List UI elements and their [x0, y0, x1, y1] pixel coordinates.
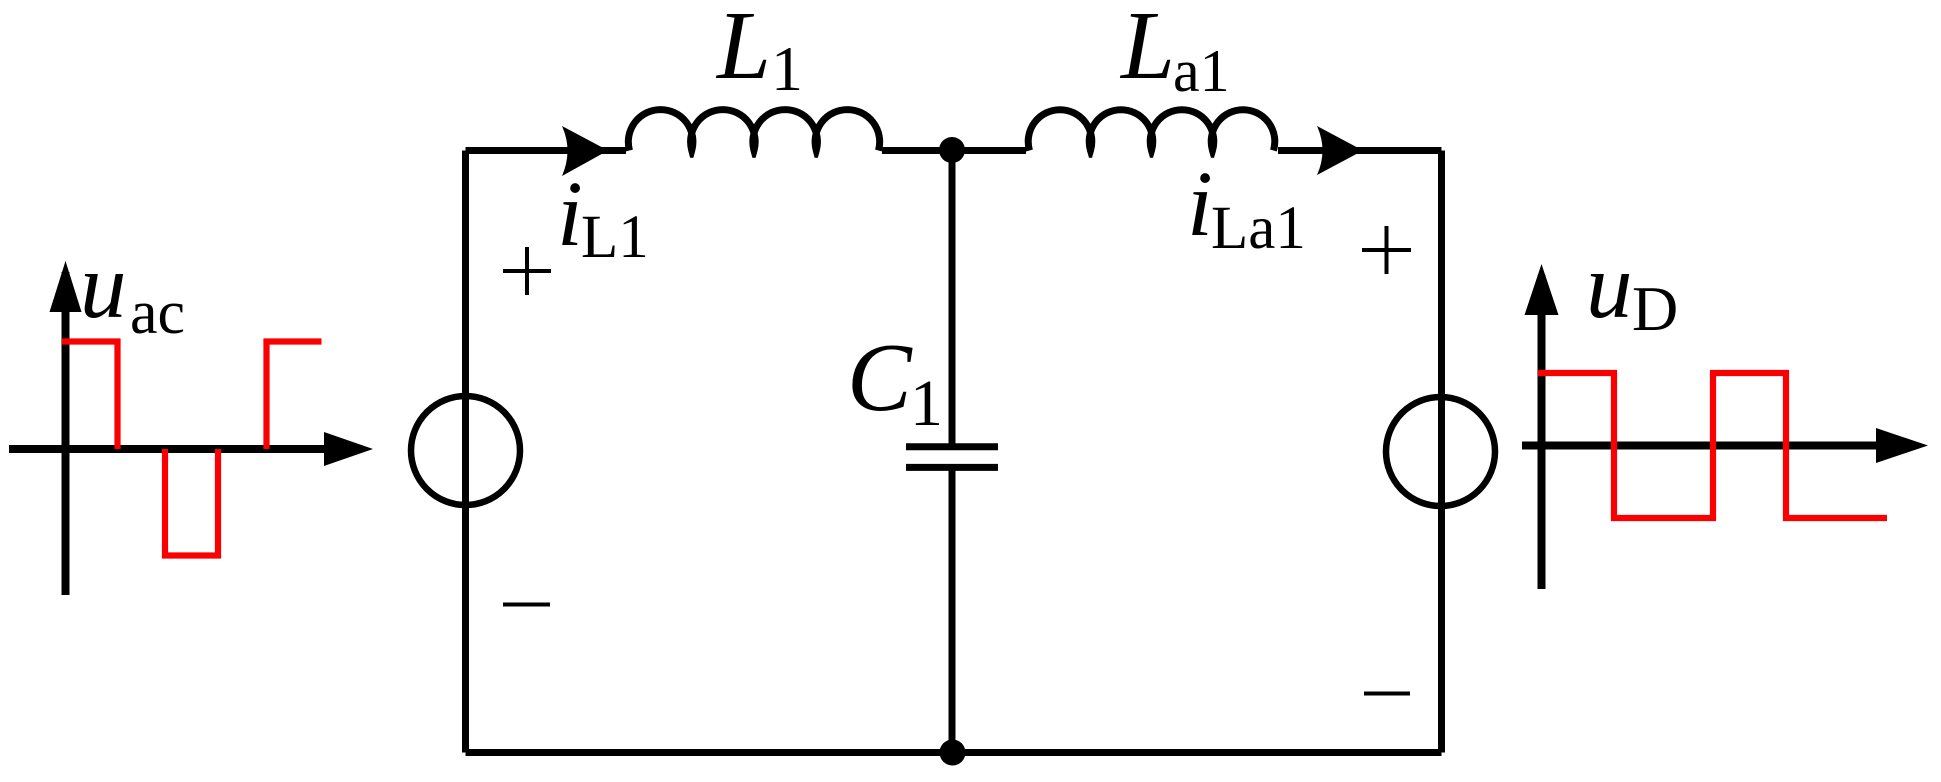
wire: La1 to right rail: [1278, 147, 1442, 154]
wire: L1 to La1 through node: [882, 147, 1026, 154]
plus sign at left source: [503, 247, 551, 295]
waveform u_ac (red square wave): [62, 342, 322, 556]
svg-text:i: i: [557, 163, 583, 266]
minus sign at right source: [1364, 692, 1410, 696]
left plot: horizontal axis arrowhead: [324, 432, 373, 466]
wire: capacitor C1 bottom plate to bottom node: [949, 470, 956, 753]
right plot: vertical axis: [1538, 275, 1546, 589]
svg-text:L1: L1: [581, 204, 649, 271]
svg-text:u: u: [1586, 235, 1633, 338]
node: bottom junction dot: [940, 740, 966, 766]
mask for inductor La1 valley spikes: [1040, 158, 1264, 172]
left plot: horizontal axis: [9, 445, 330, 453]
current arrow for iL1: [562, 126, 608, 176]
svg-text:u: u: [80, 235, 127, 338]
svg-text:L: L: [1119, 0, 1175, 99]
wire: top segment from left rail to L1: [466, 147, 627, 154]
svg-text:1: 1: [910, 367, 943, 440]
wire: right rail of circuit loop: [1438, 151, 1445, 753]
right plot: horizontal axis arrowhead: [1876, 428, 1928, 463]
minus sign at left source: [503, 603, 550, 607]
left plot: vertical axis arrowhead: [50, 261, 82, 312]
inductor L1: [628, 110, 879, 151]
right plot: vertical axis arrowhead: [1525, 264, 1559, 315]
svg-text:1: 1: [771, 33, 803, 104]
svg-text:C: C: [847, 324, 913, 431]
current arrow for iLa1: [1317, 126, 1363, 175]
node: top junction dot: [939, 137, 965, 163]
svg-text:L: L: [715, 0, 771, 99]
right plot: horizontal axis: [1522, 442, 1880, 450]
inductor La1: [1028, 110, 1275, 151]
svg-text:a1: a1: [1173, 38, 1230, 104]
capacitor C1 plates: [906, 447, 998, 468]
svg-text:ac: ac: [130, 279, 185, 347]
mask for inductor L1 valley spikes: [640, 158, 870, 172]
svg-text:La1: La1: [1211, 195, 1306, 262]
wire: bottom segment of circuit loop: [466, 749, 1442, 756]
waveform u_D (red square wave): [1538, 373, 1887, 518]
wire: node to capacitor C1 top plate: [949, 151, 956, 445]
svg-text:D: D: [1632, 273, 1678, 344]
left plot: vertical axis: [62, 272, 70, 595]
source U2: right AC source circle: [1386, 397, 1495, 506]
wire: left rail of circuit loop: [462, 151, 469, 753]
source U1: left AC source circle: [411, 396, 520, 505]
svg-text:i: i: [1187, 153, 1213, 256]
plus sign at right source: [1362, 226, 1411, 274]
